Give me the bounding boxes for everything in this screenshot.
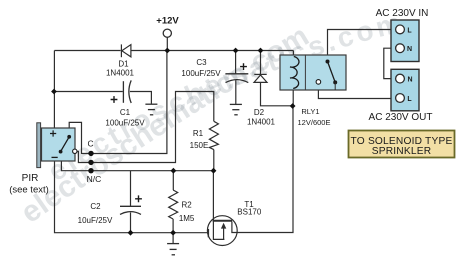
- AC OUT N circle: [396, 74, 405, 83]
- svg-text:L: L: [407, 96, 412, 103]
- wire C1 row: [54, 91, 122, 93]
- svg-text:N: N: [407, 77, 412, 84]
- T1 left leg: [213, 222, 224, 240]
- svg-text:SPRINKLER: SPRINKLER: [372, 146, 432, 157]
- TO SOLENOID box: [349, 131, 455, 158]
- wire T1 source to relay node riser: [237, 106, 293, 233]
- AC OUT terminal block: [391, 69, 419, 111]
- wire C2 top branch: [130, 171, 132, 207]
- T1 gate plate: [207, 229, 209, 237]
- watermark: [15, 7, 404, 230]
- PIR minus label: [52, 156, 58, 158]
- transistor T1 circle: [207, 216, 237, 246]
- capacitor C2: [120, 206, 141, 214]
- PIR switch NO contact circle: [73, 149, 77, 153]
- resistor R2 1M5: [169, 190, 178, 219]
- wire D2 anode to node: [261, 82, 293, 105]
- junction node dots (diamonds): [51, 48, 295, 236]
- node B R1 bottom / drain: [211, 168, 217, 174]
- svg-text:C1: C1: [120, 108, 131, 117]
- wire +12V terminal lead: [166, 37, 168, 50]
- svg-text:1M5: 1M5: [179, 214, 195, 223]
- PIR switch blade: [61, 137, 69, 152]
- svg-text:12V/600E: 12V/600E: [298, 118, 331, 127]
- PIR terminal dot C: [88, 151, 93, 156]
- AC IN N circle: [396, 44, 405, 53]
- wire relay coil drop: [292, 51, 294, 57]
- svg-text:150E: 150E: [190, 141, 209, 150]
- relay blade end dot: [333, 80, 337, 84]
- wire relay common to AC-IN L: [328, 30, 396, 62]
- node relay coil / D2 / source: [290, 103, 296, 109]
- node D2 junction: [258, 48, 264, 54]
- svg-text:PIR: PIR: [22, 173, 39, 184]
- node +12V junction: [164, 48, 170, 54]
- svg-text:D2: D2: [254, 108, 265, 117]
- +12V terminal circle: [163, 29, 171, 37]
- PIR terminal dot NC: [88, 168, 93, 173]
- AC IN terminal block: [391, 20, 419, 62]
- svg-text:R1: R1: [193, 129, 204, 138]
- wire C2 bottom stem: [130, 213, 132, 233]
- svg-text:D1: D1: [118, 60, 129, 69]
- PIR box: [42, 128, 76, 161]
- wire PIR NC contact to node row: [61, 152, 214, 171]
- svg-text:10uF/25V: 10uF/25V: [78, 216, 113, 225]
- wire relay NO contact to AC-OUT L: [318, 84, 395, 98]
- PIR flange: [37, 123, 41, 168]
- relay RLY1 box: [280, 55, 346, 90]
- wire relay coil bottom to node: [292, 89, 294, 106]
- wire ground stem under R2: [172, 233, 174, 244]
- diode D1: [121, 44, 130, 57]
- C1 ground: [145, 104, 157, 115]
- relay contact blade: [328, 62, 336, 83]
- wire R2 bottom lead: [172, 219, 174, 233]
- node C3 junction: [233, 48, 239, 54]
- ground under R2: [167, 244, 179, 255]
- wire PIR minus drop and bottom gate rail: [55, 161, 209, 233]
- relay divider: [304, 55, 306, 90]
- svg-text:C2: C2: [90, 202, 101, 211]
- node C1 junction: [51, 89, 57, 95]
- wire C3 stem bottom: [235, 80, 237, 104]
- capacitor C1: [123, 80, 131, 103]
- relay blade stub: [334, 82, 336, 90]
- svg-text:N/C: N/C: [87, 174, 102, 184]
- svg-text:N: N: [407, 46, 412, 53]
- svg-text:100uF/25V: 100uF/25V: [181, 69, 221, 78]
- wire C3 stem top: [235, 51, 237, 74]
- svg-text:1N4001: 1N4001: [247, 118, 276, 127]
- svg-text:+12V: +12V: [156, 16, 179, 27]
- C1 plus sign: [111, 96, 118, 103]
- C3 ground: [230, 104, 242, 114]
- node C2 bottom: [128, 230, 134, 236]
- AC OUT L circle: [396, 94, 405, 103]
- wire PIR NO contact to R1 top: [77, 92, 214, 163]
- svg-text:L: L: [407, 27, 412, 34]
- svg-text:1N4001: 1N4001: [106, 69, 135, 78]
- node A R2 top: [171, 168, 177, 174]
- wire left vertical drop to PIR +: [53, 51, 55, 129]
- T1 body arrow: [221, 223, 226, 239]
- wire D2 stem top: [260, 51, 262, 75]
- resistor R1 150E: [209, 121, 218, 149]
- node R2 bottom: [170, 230, 176, 236]
- C3 plus sign: [240, 63, 247, 70]
- relay coil: [290, 57, 299, 89]
- wire top rail right segment (+12V rail): [131, 50, 294, 52]
- wire AC-IN N link to AC-OUT N: [384, 48, 396, 78]
- diode D2: [254, 74, 267, 82]
- T1 right leg: [232, 222, 237, 233]
- svg-text:AC 230V OUT: AC 230V OUT: [369, 112, 433, 123]
- wire C1 to ground: [130, 92, 152, 104]
- wire PIR switch common up-over-down to C terminal and +12V riser: [69, 51, 167, 154]
- svg-text:C: C: [88, 139, 94, 149]
- wire R2 top lead: [172, 171, 174, 190]
- T1 gate bar: [213, 220, 233, 222]
- PIR plus label: [50, 130, 56, 136]
- capacitor C3: [225, 74, 248, 83]
- svg-text:(see text): (see text): [9, 185, 49, 196]
- AC IN L circle: [396, 25, 405, 34]
- svg-text:AC 230V IN: AC 230V IN: [376, 8, 429, 19]
- wire T1 drain riser: [212, 171, 214, 220]
- wire R1 bottom lead: [213, 150, 215, 171]
- relay contact hinge dot: [326, 60, 330, 64]
- PIR terminal dot NO: [88, 160, 93, 165]
- PIR switch NC contact dot: [59, 150, 63, 154]
- relay NO contact circle: [316, 80, 321, 85]
- C2 plus sign: [135, 195, 142, 202]
- svg-text:BS170: BS170: [237, 207, 262, 216]
- svg-text:100uF/25V: 100uF/25V: [105, 119, 145, 128]
- PIR switch hinge dot: [67, 135, 71, 139]
- svg-text:C3: C3: [196, 58, 207, 67]
- svg-text:RLY1: RLY1: [301, 107, 319, 116]
- wire top rail left segment: [54, 50, 120, 52]
- svg-text:R2: R2: [181, 200, 192, 209]
